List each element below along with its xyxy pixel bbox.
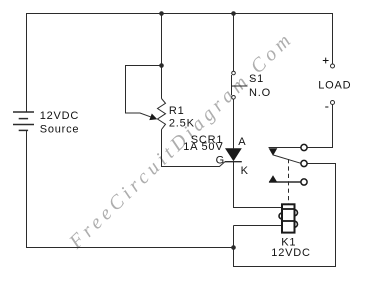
wire coil-bottom vertical to lower rail	[233, 226, 235, 268]
R1 wiper arrowhead	[149, 114, 157, 121]
switch S1 actuator line	[232, 85, 248, 87]
wire cathode to coil top	[234, 207, 283, 209]
wire SCR gate	[162, 162, 226, 167]
wire R1 bottom lead	[161, 130, 163, 168]
svg-text:FreeCircuitDiagram.Com: FreeCircuitDiagram.Com	[64, 27, 298, 254]
wire relay NO row left	[269, 147, 301, 149]
relay coil K1 body	[279, 204, 298, 232]
switch S1 blade	[231, 75, 233, 95]
relay contact circle common	[301, 160, 307, 166]
LOAD minus terminal circle	[331, 101, 335, 105]
svg-text:LOAD: LOAD	[318, 80, 351, 92]
relay coil bump right upper	[295, 210, 298, 216]
wire coil bottom terminal	[234, 225, 283, 227]
battery plate long top	[13, 111, 34, 113]
SCR cathode bar	[225, 161, 242, 163]
battery plate short	[19, 118, 28, 120]
minus sign at LOAD	[325, 106, 328, 108]
svg-text:Source: Source	[40, 123, 80, 135]
svg-text:12VDC: 12VDC	[40, 110, 79, 122]
wire LOAD plus drop	[332, 13, 334, 64]
relay contact circle NC	[301, 179, 307, 185]
junction dot R1 wiper branch	[159, 63, 164, 68]
junction dot top R1	[159, 11, 164, 16]
battery plate long	[13, 124, 34, 126]
SCR1 triangle	[225, 148, 242, 161]
resistor R1 zigzag	[158, 99, 166, 130]
wire relay NC row	[269, 181, 301, 183]
switch S1 bottom terminal circle	[232, 96, 236, 100]
relay actuation dashed link	[288, 159, 290, 205]
junction dot bottom rail	[231, 245, 236, 250]
svg-text:1A 50V: 1A 50V	[183, 141, 223, 153]
wire left vertical battery bottom	[26, 130, 28, 248]
svg-text:S1: S1	[249, 73, 264, 85]
wire R1 top lead	[161, 13, 163, 99]
svg-text:12VDC: 12VDC	[271, 247, 310, 259]
wire relay NO row right	[307, 147, 333, 149]
relay coil bump right lower	[295, 221, 298, 227]
junction dot top S1	[231, 11, 236, 16]
wire left vertical battery top	[26, 13, 28, 112]
wire bottom rail	[26, 247, 234, 249]
wire SCR cathode lead	[233, 162, 235, 208]
svg-text:A: A	[238, 136, 246, 148]
relay armature pivot triangle	[269, 148, 278, 156]
wire circle2 to right vertical	[307, 163, 336, 165]
wire R1 wiper loop	[126, 66, 162, 118]
plus sign at LOAD	[323, 58, 329, 107]
wire top rail	[26, 13, 333, 15]
svg-text:2.5K: 2.5K	[169, 118, 195, 130]
svg-text:R1: R1	[169, 105, 185, 117]
relay coil bump left	[279, 213, 282, 219]
wire S1 top lead	[233, 13, 235, 71]
relay lower contact triangle	[269, 175, 278, 182]
battery plate short bottom	[19, 129, 28, 131]
LOAD plus terminal circle	[331, 64, 335, 68]
svg-text:N.O: N.O	[249, 87, 271, 99]
switch S1 top terminal circle	[232, 71, 236, 75]
svg-text:G: G	[216, 154, 225, 166]
svg-text:K: K	[241, 165, 249, 177]
wire LOAD minus drop	[332, 105, 334, 149]
relay contact circle NO	[301, 144, 307, 150]
wire right vertical to relay common	[335, 164, 337, 268]
wire S1 bottom lead / SCR anode	[233, 99, 235, 148]
relay armature blade	[273, 155, 301, 163]
wire bottom right rail	[234, 266, 337, 268]
